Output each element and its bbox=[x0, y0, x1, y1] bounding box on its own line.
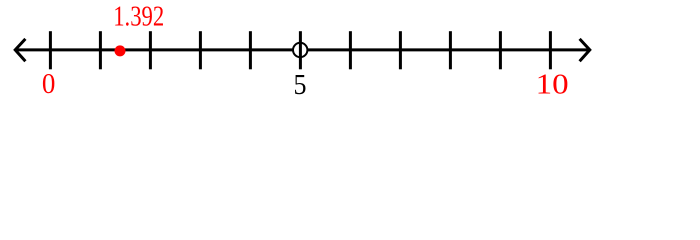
svg-text:1.392: 1.392 bbox=[113, 1, 164, 33]
svg-text:10: 10 bbox=[536, 68, 569, 100]
svg-text:5: 5 bbox=[294, 69, 307, 100]
svg-text:0: 0 bbox=[42, 68, 56, 100]
